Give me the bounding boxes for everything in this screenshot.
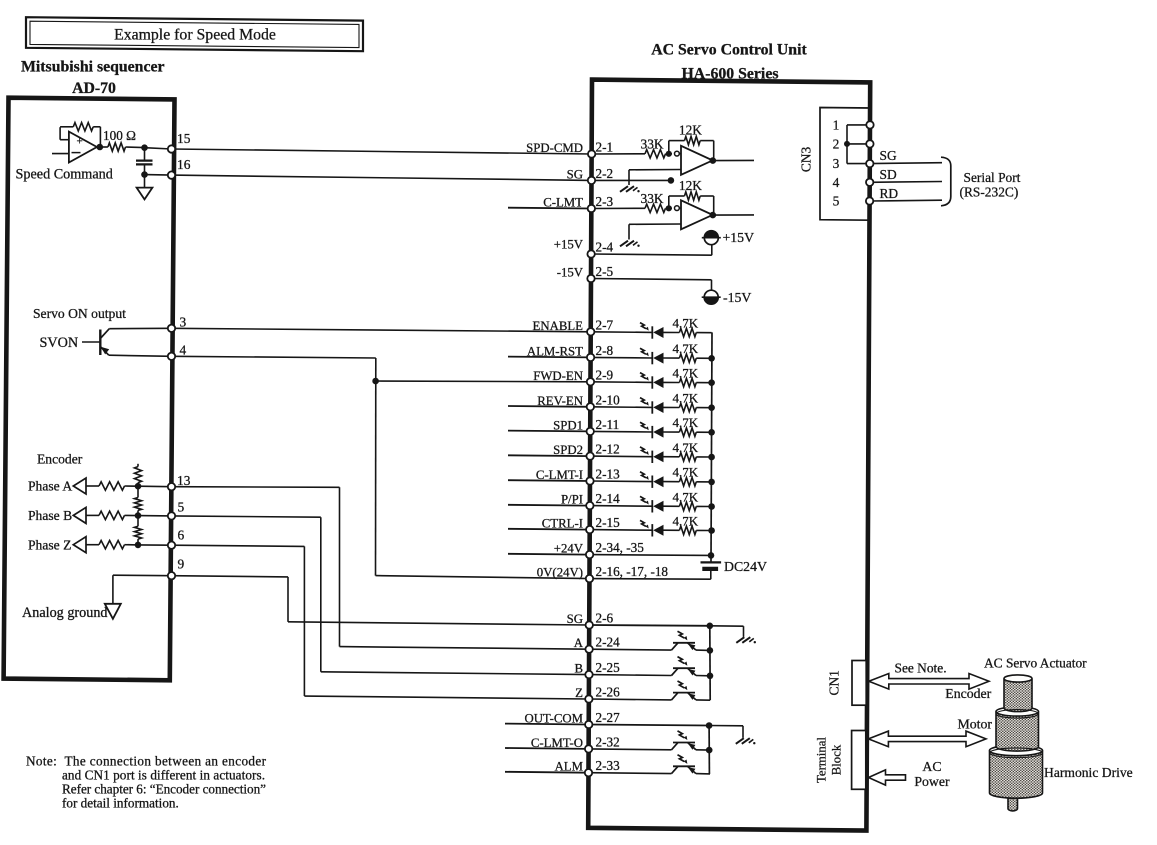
svg-text:4.7K: 4.7K <box>673 415 699 430</box>
svg-text:SD: SD <box>880 167 897 182</box>
svg-text:2-34, -35: 2-34, -35 <box>596 540 645 555</box>
svg-text:4.7K: 4.7K <box>673 465 699 480</box>
svg-text:2-3: 2-3 <box>596 194 614 209</box>
svg-text:3: 3 <box>833 156 840 171</box>
svg-text:+: + <box>77 136 83 148</box>
svg-text:Phase Z: Phase Z <box>28 537 71 552</box>
svg-text:4.7K: 4.7K <box>673 316 699 331</box>
svg-text:Z: Z <box>575 686 583 700</box>
svg-text:Encoder: Encoder <box>945 686 991 701</box>
svg-text:2-24: 2-24 <box>596 635 621 650</box>
svg-text:+15V: +15V <box>723 230 755 245</box>
svg-text:100 Ω: 100 Ω <box>103 128 136 143</box>
svg-text:2-33: 2-33 <box>596 758 621 773</box>
svg-text:-15V: -15V <box>557 266 584 280</box>
svg-text:2-12: 2-12 <box>596 442 620 457</box>
svg-text:AD-70: AD-70 <box>72 80 116 97</box>
svg-text:12K: 12K <box>679 178 702 193</box>
svg-text:Harmonic Drive: Harmonic Drive <box>1044 765 1133 780</box>
svg-text:2: 2 <box>833 137 840 152</box>
svg-text:3: 3 <box>180 314 187 329</box>
svg-text:2-32: 2-32 <box>596 734 620 749</box>
svg-text:2-5: 2-5 <box>596 264 614 279</box>
svg-text:2-11: 2-11 <box>596 417 620 432</box>
svg-text:5: 5 <box>178 499 185 514</box>
svg-text:2-16, -17, -18: 2-16, -17, -18 <box>596 564 669 579</box>
svg-text:15: 15 <box>177 131 191 146</box>
svg-text:for detail information.: for detail information. <box>62 796 179 811</box>
svg-text:12K: 12K <box>679 123 702 138</box>
svg-text:2-15: 2-15 <box>596 515 621 530</box>
svg-text:SG: SG <box>880 148 897 163</box>
svg-text:Encoder: Encoder <box>37 452 83 467</box>
svg-text:FWD-EN: FWD-EN <box>533 369 583 383</box>
svg-text:4.7K: 4.7K <box>673 513 699 528</box>
svg-text:6: 6 <box>178 528 185 543</box>
svg-text:2-2: 2-2 <box>596 166 614 181</box>
svg-text:2-6: 2-6 <box>596 611 614 626</box>
svg-text:4.7K: 4.7K <box>673 341 699 356</box>
svg-text:B: B <box>574 662 583 676</box>
svg-text:2-1: 2-1 <box>596 140 614 155</box>
svg-text:2-7: 2-7 <box>596 317 614 332</box>
svg-text:4.7K: 4.7K <box>673 489 699 504</box>
svg-text:2-26: 2-26 <box>596 685 621 700</box>
svg-text:Mitsubishi sequencer: Mitsubishi sequencer <box>21 59 165 76</box>
svg-text:4: 4 <box>180 342 187 357</box>
svg-text:9: 9 <box>178 557 185 572</box>
svg-text:+15V: +15V <box>554 238 584 252</box>
svg-text:33K: 33K <box>641 136 664 151</box>
svg-text:Example for Speed Mode: Example for Speed Mode <box>114 27 276 44</box>
svg-text:and CN1 port is different in a: and CN1 port is different in actuators. <box>62 768 265 783</box>
svg-text:2-25: 2-25 <box>596 660 621 675</box>
svg-text:4.7K: 4.7K <box>673 391 699 406</box>
svg-text:4: 4 <box>833 175 840 190</box>
svg-text:5: 5 <box>833 194 840 209</box>
svg-text:16: 16 <box>177 157 191 172</box>
svg-text:A: A <box>574 636 584 650</box>
svg-text:33K: 33K <box>641 191 664 206</box>
svg-text:Analog ground: Analog ground <box>22 605 108 621</box>
svg-text:Refer chapter 6: “Encoder conn: Refer chapter 6: “Encoder connection” <box>62 782 266 797</box>
svg-text:SVON: SVON <box>40 335 79 351</box>
svg-text:Phase B: Phase B <box>28 508 72 523</box>
svg-text:RD: RD <box>880 186 899 201</box>
svg-text:AC Servo Control Unit: AC Servo Control Unit <box>651 42 807 59</box>
svg-text:AC Servo Actuator: AC Servo Actuator <box>984 656 1087 671</box>
svg-text:Servo ON output: Servo ON output <box>33 306 126 321</box>
svg-text:Note: The connection between: Note: The connection between an encoder <box>26 754 267 769</box>
svg-text:Block: Block <box>830 744 844 775</box>
svg-text:SG: SG <box>567 612 583 626</box>
svg-text:Power: Power <box>914 774 950 789</box>
svg-text:2-14: 2-14 <box>596 491 621 506</box>
svg-text:2-8: 2-8 <box>596 343 614 358</box>
svg-text:2-4: 2-4 <box>596 240 614 255</box>
svg-text:Speed Command: Speed Command <box>16 167 113 183</box>
svg-text:DC24V: DC24V <box>724 559 767 574</box>
svg-text:1: 1 <box>833 118 840 133</box>
svg-text:-15V: -15V <box>723 290 751 305</box>
svg-text:AC: AC <box>922 759 941 774</box>
svg-text:(RS-232C): (RS-232C) <box>960 185 1019 200</box>
svg-text:2-13: 2-13 <box>596 467 621 482</box>
svg-text:CN3: CN3 <box>799 147 814 173</box>
svg-text:Phase A: Phase A <box>28 479 72 494</box>
svg-text:2-10: 2-10 <box>596 392 621 407</box>
svg-text:SG: SG <box>567 167 583 181</box>
svg-text:Serial Port: Serial Port <box>964 170 1021 185</box>
svg-text:4.7K: 4.7K <box>673 440 699 455</box>
svg-text:See Note.: See Note. <box>895 660 947 675</box>
svg-text:2-27: 2-27 <box>596 710 621 725</box>
svg-text:2-9: 2-9 <box>596 367 614 382</box>
svg-text:Terminal: Terminal <box>815 737 829 783</box>
svg-text:CN1: CN1 <box>827 670 842 695</box>
svg-text:4.7K: 4.7K <box>673 366 699 381</box>
svg-text:Motor: Motor <box>958 717 993 732</box>
